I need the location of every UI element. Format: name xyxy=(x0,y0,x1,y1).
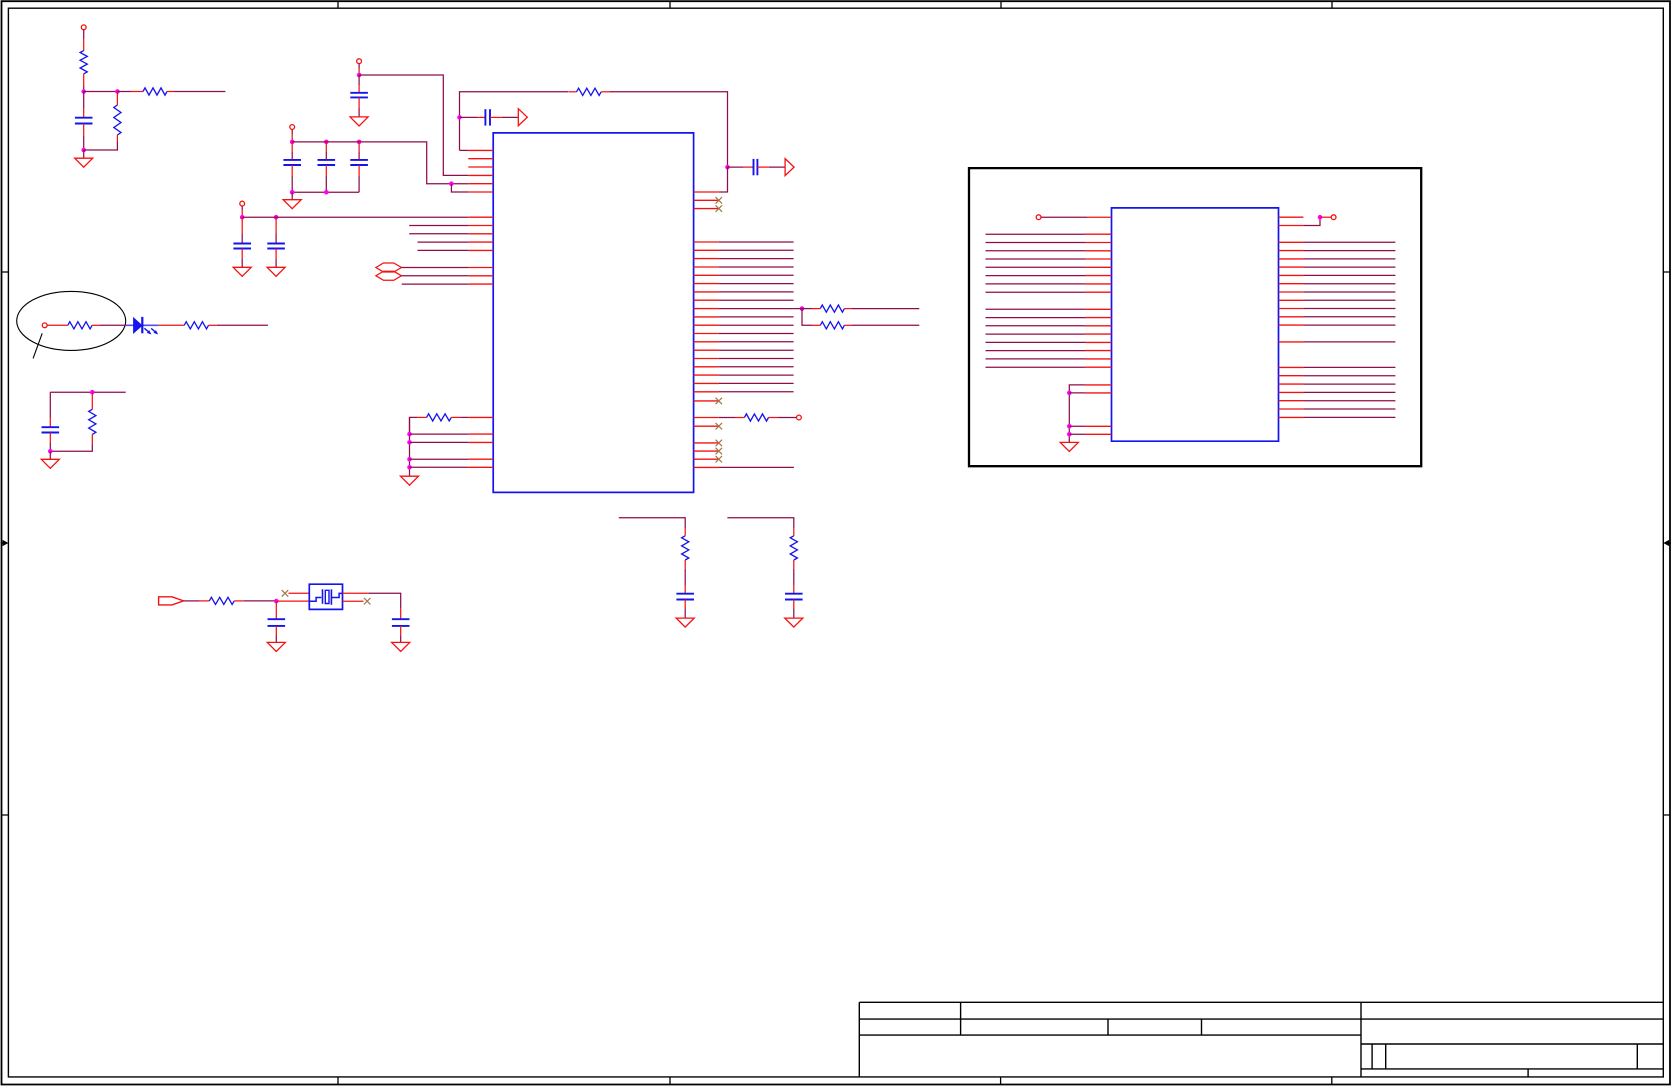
terminal pin J8 xyxy=(1331,215,1336,220)
ground GND7 xyxy=(267,642,285,651)
title block row line 2 xyxy=(859,1018,1663,1020)
capacitor C11 left xyxy=(676,593,694,595)
ground GND4 xyxy=(233,267,251,276)
no-connect U1 pin R2 xyxy=(716,197,723,204)
wire U1 bus pin 17 xyxy=(719,349,794,351)
wire pin to RB1 xyxy=(794,308,802,310)
junction node C1c xyxy=(357,140,362,145)
wire U2 left bus b5 xyxy=(986,341,1086,343)
wire R8 to C11 left xyxy=(684,569,686,585)
junction node U2T xyxy=(1318,215,1323,220)
wire RB1 to RA xyxy=(802,308,812,310)
resistor R1 xyxy=(80,51,87,74)
wire R6 to node F2 xyxy=(50,444,92,451)
wire U2 left bus b1 xyxy=(986,308,1086,310)
capacitor C6 xyxy=(241,217,243,234)
wire U2 right bus 6 xyxy=(1303,283,1395,285)
wire J4 to node D1 xyxy=(241,206,243,210)
border zone ticks left xyxy=(2,272,9,815)
wire RB1 down xyxy=(802,309,812,326)
wire bottom rail xyxy=(292,191,359,193)
wire FB2 to U1 pin R1 xyxy=(719,167,728,192)
wire U2 left bus a4 xyxy=(986,258,1086,260)
wire U1 bus pin 7 xyxy=(719,266,794,268)
wire U2 right bus 16 xyxy=(1303,391,1395,393)
wire RA right xyxy=(844,308,852,310)
wire U1 bus pin 9 xyxy=(719,283,794,285)
LED D1 xyxy=(126,324,159,326)
terminal pin J6 xyxy=(797,415,802,420)
wire U2 right bus 10 xyxy=(1303,316,1395,318)
ground GND11 xyxy=(401,476,419,485)
wire U1 bus pin 16 xyxy=(719,341,794,343)
junction node C1a xyxy=(290,140,295,145)
wire U2 left bus b2 xyxy=(986,317,1086,319)
wire U2 right bus 5 xyxy=(1303,274,1395,276)
wire U2 left bus a1 xyxy=(986,233,1086,235)
wire U2 right bus 11 xyxy=(1303,324,1395,326)
off-page connector OP1 xyxy=(159,597,184,605)
capacitor C7 xyxy=(275,217,277,234)
wire U2 left bus a3 xyxy=(986,250,1086,252)
capacitor C13 xyxy=(484,109,486,125)
wire U1 bus pin 21 xyxy=(719,382,794,384)
ground GND1 xyxy=(83,150,85,158)
wire node B1 to C2 xyxy=(358,75,360,85)
no-connect U1 pin R25 xyxy=(716,423,723,430)
border zone ticks right xyxy=(1663,272,1670,815)
wire GR1 to pin L16 xyxy=(410,433,469,435)
wire U1 bus pin 5 xyxy=(719,249,794,251)
wire ground rail U1 xyxy=(409,417,411,476)
wire top rail to U1 pin E xyxy=(292,142,468,184)
wire U2G3 to pin xyxy=(1069,433,1085,435)
wire U2 right bus 14 xyxy=(1303,375,1395,377)
wire F rail xyxy=(50,391,125,393)
ground GND2 xyxy=(350,117,368,126)
wire R5 right xyxy=(209,324,217,326)
no-connect X2 xyxy=(364,598,371,605)
wire U2 right bus 1 xyxy=(1303,241,1395,243)
wire J3 to node C1a xyxy=(291,129,293,134)
wire net to U1 pin L8 xyxy=(409,225,468,227)
wire U2 left bus a6 xyxy=(986,275,1086,277)
resistor R5 xyxy=(184,322,208,329)
junction node F2 xyxy=(48,449,53,454)
junction node D1b xyxy=(274,215,279,220)
resistor RB xyxy=(820,322,844,329)
junction node GR4 xyxy=(407,465,412,470)
ground GND12 xyxy=(1060,442,1078,451)
wire C2 to GND2 xyxy=(358,97,360,108)
wire node A2 to R3 xyxy=(117,91,131,93)
wire C4 bottom xyxy=(325,165,327,176)
resistor R12 feedback xyxy=(568,91,576,93)
junction node GR3 xyxy=(407,457,412,462)
wire U2 right bus 15 xyxy=(1303,383,1395,385)
ground GND5 xyxy=(267,267,285,276)
wire GR4 to pin L19 xyxy=(410,466,469,468)
wire U2G1 to pin xyxy=(1069,392,1085,394)
title block right row line xyxy=(1361,1043,1663,1045)
resistor R7 xyxy=(209,597,234,604)
wire C1 to node A3 xyxy=(83,124,85,137)
wire C11 to GND9 right xyxy=(793,600,795,609)
U2 right pin stubs rows 1-2 xyxy=(1279,217,1304,225)
resistor R11 xyxy=(744,414,768,421)
junction node U2G1 xyxy=(1067,391,1072,396)
wire U1 bus pin 12 xyxy=(719,308,794,310)
no-connect X1 xyxy=(282,590,289,597)
title block divider a xyxy=(960,1002,962,1035)
no-connect U1 pin R26 xyxy=(716,440,723,447)
wire net to U1 pin L9 xyxy=(409,233,468,235)
title block outline xyxy=(859,1002,1663,1077)
junction node G1 xyxy=(274,599,279,604)
no-connect U1 pin R23 xyxy=(716,398,723,405)
wire U1 bus pin 22 xyxy=(719,391,794,393)
title block right row line lower xyxy=(1361,1068,1663,1070)
wire C5 bottom xyxy=(358,165,360,176)
title block divider b xyxy=(1107,1019,1109,1035)
wire U2 pin tie xyxy=(1303,217,1320,225)
junction node C2 xyxy=(449,181,454,186)
power arrow A2 xyxy=(785,159,794,176)
U2 right pin stubs xyxy=(1279,242,1304,417)
resistor R8 right xyxy=(793,528,795,536)
wire node A1 to node A2 xyxy=(84,91,118,93)
wire U1 bus pin 20 xyxy=(719,374,794,376)
junction node A3 xyxy=(81,148,86,153)
power arrow A1 xyxy=(518,109,527,126)
ground GND9 right xyxy=(785,618,803,627)
connector pin J7 xyxy=(1036,215,1041,220)
wire U2 left bus b4 xyxy=(986,333,1086,335)
capacitor C11 right xyxy=(785,593,803,595)
title block inner cell dividers xyxy=(1372,1044,1637,1069)
wire node G1 to Y1 xyxy=(276,600,309,602)
wire U2 right bus 7 xyxy=(1303,291,1395,293)
wire R1 to node A1 xyxy=(83,74,85,86)
title block divider c xyxy=(1201,1019,1203,1035)
wire FB1 to C13 xyxy=(460,116,478,118)
crystal Y1 pin lower-right stub xyxy=(343,600,364,602)
IC U2 body xyxy=(1112,208,1279,441)
callout pointer line xyxy=(33,333,42,358)
capacitor C14 xyxy=(753,159,755,175)
wire H left rail xyxy=(619,518,685,528)
resistor R8 left xyxy=(684,528,686,536)
wire U2 right bus 2 xyxy=(1303,250,1395,252)
wire C13 to arrow xyxy=(490,116,502,118)
ground GND3 xyxy=(291,192,293,200)
wire U1 feedback loop left xyxy=(460,92,569,151)
connector pin J1 xyxy=(81,25,86,30)
wire U1 pin L1 xyxy=(460,149,469,151)
wire U1 bus pin 8 xyxy=(719,274,794,276)
connector pin J4 xyxy=(240,201,245,206)
border zone ticks bottom xyxy=(338,1077,1332,1085)
ground GND9 left xyxy=(676,618,694,627)
wire U2G2 to pin xyxy=(1069,425,1085,427)
wire OS2 to U1 pin L13 xyxy=(401,275,468,277)
wire U2 right bus 9 xyxy=(1303,308,1395,310)
wire U1 bus pin 14 xyxy=(719,324,794,326)
no-connect U1 pin R27 xyxy=(716,448,723,455)
crystal Y1 xyxy=(309,584,342,609)
capacitor C5 xyxy=(358,142,360,152)
junction node C1b xyxy=(324,140,329,145)
wire U1 bus pin 15 xyxy=(719,333,794,335)
wire U2 right bus 8 xyxy=(1303,299,1395,301)
wire U2 left bus b8 xyxy=(986,366,1086,368)
border center arrow left xyxy=(1,542,4,544)
title block bottom strip divider xyxy=(1527,1069,1529,1077)
wire C10 to GND8 xyxy=(400,626,402,636)
module frame xyxy=(969,168,1421,466)
wire C7 to GND5 xyxy=(275,249,277,260)
wire C8 to node F2 xyxy=(49,433,51,443)
junction node FB1 xyxy=(457,115,462,120)
wire GR3 to pin L18 xyxy=(410,458,469,460)
wire to RB xyxy=(812,324,820,326)
resistor R6 xyxy=(91,392,93,409)
wire U2 right bus 3 xyxy=(1303,258,1395,260)
crystal Y1 pin upper-left stub xyxy=(289,592,310,594)
wire U2 ground rail xyxy=(1069,385,1085,443)
U2 ground pins stubs xyxy=(1085,385,1111,434)
junction node B1 xyxy=(357,73,362,78)
wire J1 to R1 xyxy=(83,30,85,39)
wire U1 pin L15 corner xyxy=(410,417,418,434)
wire U2 left bus a2 xyxy=(986,242,1086,244)
off-sheet connector OS2 xyxy=(376,271,402,280)
wire R8 to C11 right xyxy=(793,569,795,585)
capacitor C9 xyxy=(275,601,277,611)
junction node A2 xyxy=(115,89,120,94)
capacitor C4 xyxy=(325,142,327,152)
wire R2 bottom to node A3 xyxy=(84,142,118,150)
wire U2 left bus a7 xyxy=(986,283,1086,285)
no-connect U1 pin R3 xyxy=(716,205,723,212)
U2 left pin stubs xyxy=(1085,234,1111,367)
wire net to U1 pin L11 xyxy=(418,249,469,251)
wire J5 to R4 xyxy=(47,324,68,326)
wire node A1 to C1 xyxy=(83,92,85,109)
wire U1 bus pin 11 xyxy=(719,299,794,301)
junction node C3a xyxy=(290,190,295,195)
wire R11 to terminal xyxy=(769,417,778,419)
wire J2 to node B1 xyxy=(358,64,360,68)
wire U2 left bus b6 xyxy=(986,350,1086,352)
wire FB2 to C14 xyxy=(728,166,744,168)
IC U1 body xyxy=(493,133,693,493)
border center arrow right xyxy=(1668,542,1671,544)
wire C3 bottom xyxy=(291,165,293,176)
wire U1 bus pin 13 xyxy=(719,316,794,318)
border zone ticks top xyxy=(338,1,1332,8)
wire U1 bus pin 4 xyxy=(719,241,794,243)
connector pin J5 xyxy=(42,323,47,328)
wire H right rail xyxy=(727,518,793,528)
title block row line 3 left xyxy=(859,1034,1361,1036)
U1 right pin stubs xyxy=(694,192,719,467)
wire C9 to GND7 xyxy=(275,626,277,636)
wire U1 bus pin 10 xyxy=(719,291,794,293)
junction node F1 xyxy=(90,390,95,395)
wire U2 left bus a5 xyxy=(986,266,1086,268)
junction node A1 xyxy=(81,89,86,94)
capacitor C1 xyxy=(75,117,93,119)
resistor R10 xyxy=(417,416,426,418)
wire U2 left bus b3 xyxy=(986,325,1086,327)
wire node C2 to U1 pin F xyxy=(451,184,468,192)
capacitor C2 xyxy=(350,92,368,94)
wire R3 right xyxy=(167,91,175,93)
wire U2 right bus 12 xyxy=(1303,341,1395,343)
junction node U2G3 xyxy=(1067,432,1072,437)
wire C14 to arrow xyxy=(757,166,769,168)
off-sheet connector OS1 xyxy=(376,263,402,272)
wire U1 bus pin 19 xyxy=(719,366,794,368)
wire U1 bus pin 18 xyxy=(719,358,794,360)
wire U1 pin R29 xyxy=(719,466,794,468)
wire OS1 to U1 pin L12 xyxy=(401,267,468,269)
highlight ellipse xyxy=(17,291,126,350)
wire C6 to GND4 xyxy=(241,249,243,260)
wire U2 right bus 13 xyxy=(1303,366,1395,368)
capacitor C8 xyxy=(49,418,51,428)
wire R4 to LED D1 xyxy=(92,324,100,326)
junction node D1a xyxy=(240,215,245,220)
resistor R2 xyxy=(116,92,118,106)
wire Y1 upper-right to C10 xyxy=(343,592,369,594)
wire RB right xyxy=(844,324,852,326)
wire U1 bus pin 6 xyxy=(719,258,794,260)
wire LED to R5 xyxy=(158,324,184,326)
ground GND8 xyxy=(392,642,410,651)
wire U2 left bus a8 xyxy=(986,291,1086,293)
capacitor C3 xyxy=(291,142,293,152)
wire U2 right bus 19 xyxy=(1303,416,1395,418)
wire U2 left bus b7 xyxy=(986,358,1086,360)
resistor R4 xyxy=(68,322,92,329)
wire OP1 to R7 xyxy=(184,600,200,602)
junction node C3b xyxy=(324,190,329,195)
junction node GR2 xyxy=(407,440,412,445)
wire net to U1 pin L10 xyxy=(418,241,469,243)
wire GR2 to pin L17 xyxy=(410,441,469,443)
wire net to U1 pin L14 xyxy=(402,283,469,285)
junction node RB1 xyxy=(800,306,805,311)
no-connect U1 pin R28 xyxy=(716,456,723,463)
wire U1 feedback loop right xyxy=(610,92,728,167)
title block divider d xyxy=(1360,1002,1362,1077)
connector pin J3 xyxy=(290,125,295,130)
wire rail to U1 pin G xyxy=(242,216,468,218)
wire node B1 to U1 pin xyxy=(359,75,468,175)
wire U1 pin R24 to R11 xyxy=(719,417,735,419)
ground GND6 xyxy=(49,451,51,459)
junction node U2G2 xyxy=(1067,424,1072,429)
wire J7 to U2 pin xyxy=(1041,216,1087,218)
wire C11 to GND9 left xyxy=(684,600,686,609)
wire U2 right bus 4 xyxy=(1303,266,1395,268)
wire R7 to node G1 xyxy=(234,600,244,602)
junction node GR1 xyxy=(407,432,412,437)
resistor R3 xyxy=(143,88,167,95)
wire U2T to terminal xyxy=(1320,216,1331,218)
resistor RA xyxy=(820,305,844,312)
capacitor C10 xyxy=(400,608,402,619)
wire U2 right bus 17 xyxy=(1303,400,1395,402)
connector pin J2 xyxy=(357,59,362,64)
U1 left pin stubs xyxy=(468,150,493,467)
wire F rail corner xyxy=(49,392,51,417)
junction node FB2 xyxy=(725,165,730,170)
wire U2 right bus 18 xyxy=(1303,408,1395,410)
